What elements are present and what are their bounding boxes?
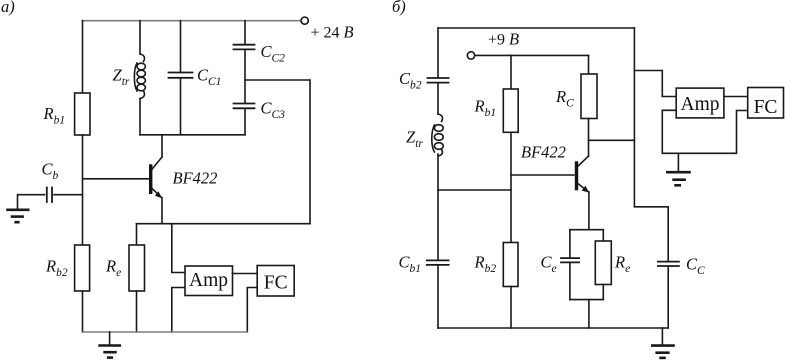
svg-text:a): a)	[1, 0, 15, 16]
resistor Re (a)	[136, 224, 138, 245]
capacitor Ce (b)	[569, 230, 571, 258]
block FC (a)	[257, 266, 294, 297]
resistor Rb1 (a)	[75, 93, 90, 135]
wire Rb2 to bottom rail	[82, 291, 84, 332]
inductor Ztr (b)	[438, 114, 442, 122]
wire Amp to FC a	[233, 273, 258, 275]
svg-text:б): б)	[392, 0, 406, 16]
wire collector a	[161, 135, 163, 157]
wire collector node to output b	[589, 139, 635, 141]
capacitor Cb1 (b)	[427, 259, 449, 261]
wire Amp ground return a	[172, 288, 185, 333]
wire base b	[511, 174, 574, 176]
capacitor CC (b)	[658, 261, 679, 263]
wire FC ground return a	[247, 288, 257, 333]
svg-text:FC: FC	[264, 273, 288, 294]
wire right vertical b	[634, 28, 668, 261]
wire Ztr to base node b	[438, 189, 511, 191]
capacitor CC1 (a)	[180, 21, 182, 72]
resistor Rb2 (a)	[75, 245, 90, 291]
wire top supply rail a	[83, 20, 302, 22]
svg-text:+9 В: +9 В	[488, 29, 519, 48]
wire top rail b	[438, 27, 634, 29]
wire emitter b	[588, 192, 590, 230]
wire Amp to FC b	[724, 96, 748, 98]
ground bottom (a)	[109, 332, 111, 345]
capacitor Cb2 (b)	[428, 77, 449, 79]
terminal +9V	[467, 52, 474, 59]
terminal +24V	[301, 17, 308, 24]
svg-text:Amp: Amp	[681, 94, 720, 115]
wire bottom rail a	[83, 331, 248, 333]
wire left vertical a (rail to Rb1)	[82, 21, 84, 93]
svg-text:+ 24 В: + 24 В	[311, 23, 354, 42]
transistor Q BF422 (b)	[575, 161, 578, 190]
capacitor Cb (a)	[18, 194, 45, 196]
wire emitter a	[161, 198, 163, 224]
block Amp (b)	[676, 88, 724, 118]
wire Rb1 top lead b	[510, 55, 512, 89]
wire emitter bracket top b	[570, 229, 603, 231]
svg-text:BF422: BF422	[521, 143, 566, 162]
transistor Q BF422 (a)	[149, 164, 152, 194]
wire +9V rail	[475, 54, 589, 56]
ground amp (b)	[677, 153, 679, 171]
wire Rb2 to bottom rail b	[510, 287, 512, 329]
wire bottom rail b	[438, 327, 668, 329]
wire RC to collector b	[588, 119, 590, 157]
wire Rb1 to Rb2 b	[510, 132, 512, 242]
svg-text:BF422: BF422	[173, 169, 218, 188]
wire left vertical b lower	[437, 190, 439, 260]
wire tank bottom a	[140, 134, 245, 136]
resistor RC (b)	[581, 74, 597, 119]
wire emitter node rail a	[137, 223, 311, 225]
wire amp input b	[634, 71, 676, 97]
svg-text:Amp: Amp	[189, 270, 228, 291]
wire Amp ground return b	[662, 110, 747, 153]
wire emitter to bottom rail b	[588, 300, 590, 328]
wire RC top lead b	[588, 55, 590, 74]
wire Rb1 to Rb2 vertical	[82, 135, 84, 245]
wire emitter bracket bottom b	[570, 299, 603, 301]
ground bottom (b)	[661, 328, 663, 345]
wire output tap a	[245, 80, 310, 224]
block Amp (a)	[185, 266, 233, 296]
block FC (b)	[748, 88, 784, 119]
resistor Re (b)	[602, 230, 604, 241]
svg-text:FC: FC	[754, 97, 778, 118]
resistor Rb2 (b)	[503, 243, 518, 287]
capacitor CC3 (a)	[234, 103, 255, 105]
wire Re to bottom rail	[136, 291, 138, 332]
wire left vertical b upper	[437, 28, 439, 77]
inductor Ztr (a)	[139, 21, 141, 54]
wire base a	[83, 178, 149, 180]
wire amp input a	[172, 224, 185, 273]
resistor Rb1 (b)	[503, 89, 518, 132]
capacitor CC2 (a)	[244, 21, 246, 44]
ground left (a)	[17, 195, 19, 210]
